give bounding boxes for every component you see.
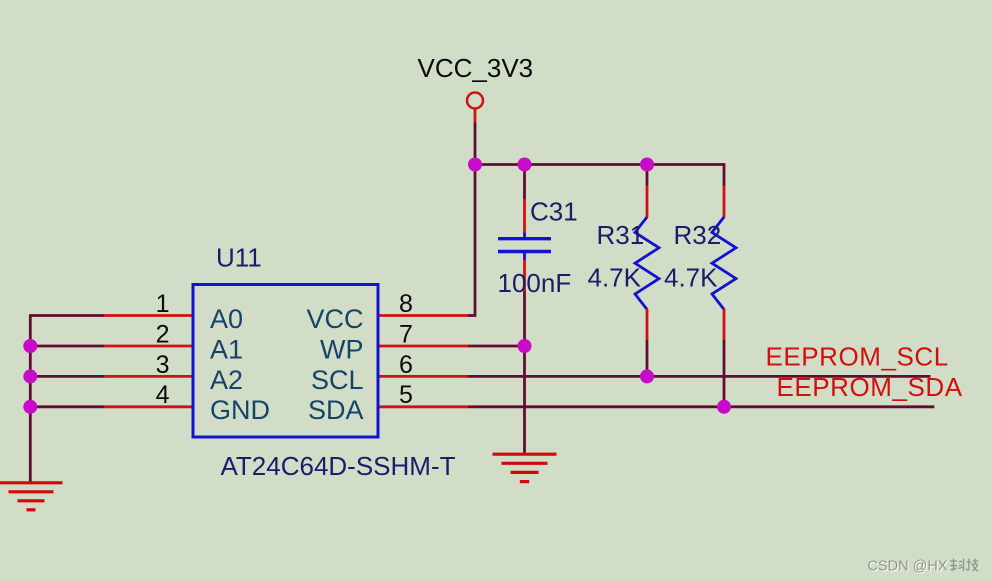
wire pin2 bbox=[29, 345, 105, 348]
wire C31 bottom to ground bbox=[523, 291, 526, 454]
resistor R32 zigzag bbox=[712, 217, 736, 309]
wire top bus horizontal bbox=[475, 163, 724, 166]
wire pin1 bbox=[29, 314, 105, 317]
svg-text:R32: R32 bbox=[674, 220, 722, 250]
svg-text:VCC_3V3: VCC_3V3 bbox=[418, 53, 534, 83]
junction dot WP to ground net bbox=[518, 339, 532, 353]
pin 1 red lead bbox=[104, 314, 193, 317]
wire SCL net horizontal bbox=[467, 375, 931, 378]
junction dot bus at R31 bbox=[640, 158, 654, 172]
power port VCC_3V3 circle bbox=[467, 93, 483, 109]
wire R32 top bbox=[723, 163, 726, 186]
wire pin3 bbox=[29, 375, 105, 378]
svg-text:WP: WP bbox=[320, 334, 364, 364]
svg-text:4.7K: 4.7K bbox=[664, 263, 718, 293]
svg-text:SCL: SCL bbox=[311, 365, 364, 395]
svg-text:CSDN @HX: CSDN @HX bbox=[868, 559, 948, 575]
pin 7 red lead bbox=[378, 345, 468, 348]
pin 5 red lead bbox=[378, 405, 468, 408]
watermark CSDN bbox=[868, 559, 979, 576]
svg-text:A1: A1 bbox=[210, 334, 243, 364]
resistor R32 bottom red lead bbox=[723, 309, 726, 340]
svg-text:A0: A0 bbox=[210, 304, 243, 334]
junction dot bus at C31 bbox=[518, 158, 532, 172]
wire R31 top bbox=[646, 163, 649, 186]
svg-text:5: 5 bbox=[399, 381, 413, 409]
wire R31 bottom bbox=[646, 340, 649, 377]
capacitor C31 top red lead bbox=[523, 199, 526, 233]
pin 6 red lead bbox=[378, 375, 468, 378]
pin 8 red lead bbox=[378, 314, 468, 317]
junction dot bus at VCC drop bbox=[468, 158, 482, 172]
svg-text:3: 3 bbox=[156, 351, 170, 379]
svg-text:EEPROM_SCL: EEPROM_SCL bbox=[766, 342, 949, 372]
pin 2 red lead bbox=[104, 345, 193, 348]
resistor R31 bottom red lead bbox=[646, 309, 649, 340]
capacitor C31 bottom red lead bbox=[523, 260, 526, 292]
svg-text:C31: C31 bbox=[530, 197, 578, 227]
svg-text:8: 8 bbox=[399, 290, 413, 318]
watermark glyph ke bbox=[950, 559, 964, 572]
power port VCC_3V3 red stub bbox=[474, 109, 477, 124]
svg-text:VCC: VCC bbox=[306, 304, 363, 334]
svg-text:4.7K: 4.7K bbox=[588, 263, 642, 293]
ground symbol left bbox=[0, 483, 63, 510]
svg-text:AT24C64D-SSHM-T: AT24C64D-SSHM-T bbox=[221, 451, 456, 481]
svg-text:GND: GND bbox=[210, 395, 270, 425]
wire C31 top bbox=[523, 163, 526, 199]
junction dot left bus pin4 bbox=[23, 400, 37, 414]
resistor R32 top red lead bbox=[723, 186, 726, 218]
svg-text:A2: A2 bbox=[210, 365, 243, 395]
wire left vertical bus bbox=[29, 316, 32, 484]
wire VCC vertical to pin8 corner bbox=[474, 123, 477, 316]
svg-text:2: 2 bbox=[156, 320, 170, 348]
svg-text:4: 4 bbox=[156, 381, 170, 409]
wire R32 bottom bbox=[723, 340, 726, 407]
junction dot left bus pin3 bbox=[23, 369, 37, 383]
pin 3 red lead bbox=[104, 375, 193, 378]
pin 4 red lead bbox=[104, 405, 193, 408]
capacitor C31 top blue stub bbox=[523, 233, 526, 239]
junction dot left bus pin2 bbox=[23, 339, 37, 353]
svg-text:EEPROM_SDA: EEPROM_SDA bbox=[777, 372, 963, 402]
svg-text:R31: R31 bbox=[597, 220, 645, 250]
junction dot R31 on SCL bbox=[640, 369, 654, 383]
svg-text:7: 7 bbox=[399, 320, 413, 348]
svg-text:1: 1 bbox=[156, 290, 170, 318]
svg-text:6: 6 bbox=[399, 351, 413, 379]
resistor R31 top red lead bbox=[646, 186, 649, 218]
capacitor C31 bottom blue stub bbox=[523, 252, 526, 261]
junction dot R32 on SDA bbox=[717, 400, 731, 414]
resistor R31 zigzag bbox=[635, 217, 659, 309]
wire SDA net horizontal bbox=[467, 405, 934, 408]
svg-text:100nF: 100nF bbox=[498, 268, 572, 298]
wire pin4 bbox=[29, 405, 105, 408]
wire WP to C31 net bbox=[467, 345, 525, 348]
op IC U11 body bbox=[193, 285, 378, 438]
capacitor C31 top plate bbox=[498, 237, 551, 240]
watermark glyph ji bbox=[966, 559, 978, 571]
svg-text:SDA: SDA bbox=[308, 395, 364, 425]
svg-text:U11: U11 bbox=[216, 243, 262, 273]
wire pin8 horizontal stub bbox=[467, 314, 476, 317]
ground symbol middle (C31) bbox=[493, 454, 557, 481]
capacitor C31 bottom plate bbox=[498, 250, 551, 253]
